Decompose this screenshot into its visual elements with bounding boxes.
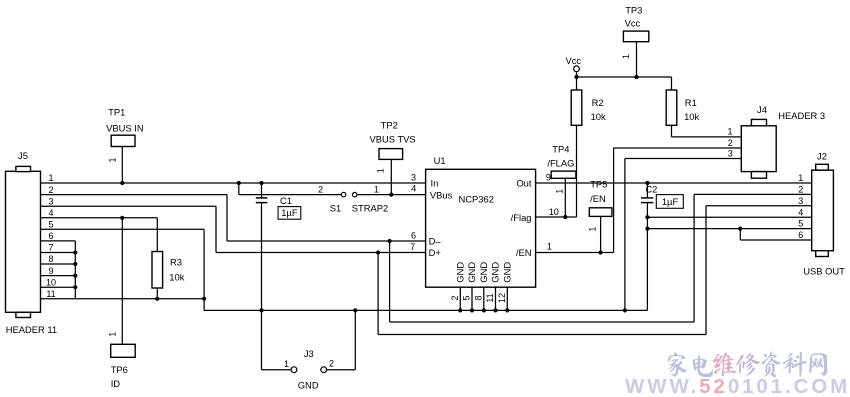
svg-text:VBUS TVS: VBUS TVS bbox=[369, 134, 415, 145]
resistor R2 bbox=[571, 90, 582, 125]
node C1 junction on VBUS bbox=[259, 181, 263, 185]
label GND bbox=[298, 380, 319, 391]
svg-text:GND: GND bbox=[298, 380, 319, 391]
node TP6 junction on ID bbox=[120, 216, 124, 220]
svg-text:3: 3 bbox=[728, 148, 733, 158]
node VBus strap junction bbox=[237, 181, 241, 185]
svg-text:3: 3 bbox=[411, 172, 416, 182]
label TP3 Vcc bbox=[625, 18, 641, 29]
wire J2 pin6 bbox=[740, 239, 811, 241]
U1 GND pin number 11 bbox=[485, 293, 495, 302]
U1 GND stub pin 5 bbox=[471, 287, 473, 310]
node U1 GND pin 5 junction bbox=[470, 308, 474, 312]
wire J4 pin2 to /EN bbox=[614, 148, 742, 253]
J5 pin 4 number bbox=[48, 208, 53, 218]
label VBUS TVS bbox=[369, 134, 415, 145]
svg-text:12: 12 bbox=[497, 293, 507, 303]
svg-text:USB OUT: USB OUT bbox=[803, 266, 845, 277]
jumper J3 pin2 circle bbox=[321, 367, 327, 373]
wire J5 pin 10 bbox=[41, 286, 76, 288]
svg-text:5: 5 bbox=[462, 295, 472, 300]
label VBUS IN bbox=[106, 123, 144, 134]
J2 pin 4 number bbox=[798, 207, 803, 217]
svg-text:/EN: /EN bbox=[590, 193, 606, 204]
label R2 10k bbox=[591, 111, 606, 122]
svg-text:VBus: VBus bbox=[430, 189, 453, 200]
U1 GND pin number 12 bbox=[497, 293, 507, 303]
svg-text:/Flag: /Flag bbox=[511, 212, 532, 223]
connector J2 USB OUT body bbox=[812, 164, 834, 256]
U1 pin 10 number bbox=[549, 207, 559, 217]
C1 value box 1uF bbox=[278, 207, 301, 220]
node U1 GND pin 11 junction bbox=[493, 308, 497, 312]
label /EN bbox=[590, 193, 606, 204]
node U1 GND pin 8 junction bbox=[482, 308, 486, 312]
svg-text:1: 1 bbox=[621, 54, 631, 59]
svg-text:HEADER 11: HEADER 11 bbox=[6, 324, 57, 335]
svg-text:ID: ID bbox=[111, 378, 121, 389]
node C2 J2pin5 junction bbox=[645, 227, 649, 231]
node C1 GND junction bbox=[259, 308, 263, 312]
label R1 10k bbox=[684, 111, 699, 122]
U1 GND label 3 bbox=[478, 262, 489, 283]
svg-text:J4: J4 bbox=[757, 104, 767, 115]
node TP3 junction bbox=[634, 75, 638, 79]
node pin 9 junction bbox=[73, 274, 77, 278]
svg-text:/EN: /EN bbox=[516, 247, 532, 258]
svg-text:5: 5 bbox=[48, 220, 53, 230]
svg-text:R3: R3 bbox=[170, 256, 182, 267]
wire J5 pin 8 bbox=[41, 263, 76, 265]
wire J5 pin4 ID bbox=[41, 217, 158, 219]
label HEADER 3 bbox=[778, 110, 825, 121]
J2 pin 1 number bbox=[798, 173, 803, 183]
svg-text:1: 1 bbox=[547, 241, 552, 251]
svg-text:1µF: 1µF bbox=[281, 207, 298, 218]
U1 pin Out label bbox=[516, 178, 532, 189]
J5 pin 9 number bbox=[48, 266, 53, 276]
svg-text:1: 1 bbox=[374, 184, 379, 194]
svg-text:D–: D– bbox=[429, 236, 442, 247]
label ID bbox=[111, 378, 121, 389]
svg-text:2: 2 bbox=[728, 138, 733, 148]
node J3 GND junction bbox=[353, 308, 357, 312]
J5 pin 7 number bbox=[48, 243, 53, 253]
svg-text:Vcc: Vcc bbox=[565, 55, 581, 66]
svg-text:TP3: TP3 bbox=[625, 4, 642, 15]
svg-text:J3: J3 bbox=[304, 348, 314, 359]
U1 pin In label bbox=[431, 178, 439, 189]
node Vcc junction bbox=[574, 75, 578, 79]
U1 GND stub pin 8 bbox=[483, 287, 485, 310]
svg-text:1: 1 bbox=[48, 173, 53, 183]
svg-text:R2: R2 bbox=[592, 97, 604, 108]
connector J5 HEADER 11 body bbox=[6, 166, 41, 317]
label C2 bbox=[645, 184, 657, 195]
label TP2 bbox=[381, 119, 398, 130]
wire J5 pin5 to GND bbox=[41, 228, 205, 230]
node TP2 junction on strap bbox=[389, 193, 393, 197]
U1 GND stub pin 2 bbox=[459, 287, 461, 310]
U1 GND pin number 2 bbox=[450, 295, 460, 300]
svg-text:2: 2 bbox=[318, 184, 323, 194]
wire pin5 vertical bbox=[203, 229, 205, 298]
wire GND to J2 pin5 bbox=[647, 228, 811, 230]
U1 pin D+ label bbox=[429, 247, 442, 258]
J2 pin 2 number bbox=[798, 185, 803, 195]
svg-text:GND: GND bbox=[455, 262, 466, 283]
node C2 junction on Out bbox=[645, 181, 649, 185]
U1 GND label 1 bbox=[455, 262, 466, 283]
S1 pin 1 label bbox=[374, 184, 379, 194]
label TP6 bbox=[111, 364, 128, 375]
J5 pin 5 number bbox=[48, 220, 53, 230]
J4 pin 2 number bbox=[728, 138, 733, 148]
TP6 pin 1 label bbox=[108, 332, 118, 337]
label TP5 bbox=[590, 179, 607, 190]
node U1 GND pin 12 junction bbox=[505, 308, 509, 312]
node J2 pin5 junction bbox=[738, 227, 742, 231]
svg-text:TP4: TP4 bbox=[552, 143, 569, 154]
svg-text:1µF: 1µF bbox=[662, 196, 679, 207]
connector J4 HEADER 3 body bbox=[741, 119, 776, 178]
wire D+ vertical bbox=[215, 206, 217, 252]
wire J5 pin1 VBUS to U1 In bbox=[41, 182, 426, 184]
svg-text:Vcc: Vcc bbox=[625, 18, 641, 29]
svg-text:1: 1 bbox=[108, 157, 118, 162]
J5 pin 3 number bbox=[48, 196, 53, 206]
node TP4 junction bbox=[563, 215, 567, 219]
svg-text:1: 1 bbox=[376, 168, 386, 173]
label TP3 bbox=[625, 4, 642, 15]
J2 pin 3 number bbox=[798, 196, 803, 206]
svg-text:In: In bbox=[431, 178, 439, 189]
svg-text:2: 2 bbox=[798, 185, 803, 195]
power Vcc circle bbox=[574, 66, 580, 72]
wire pins 6-10 bus vertical bbox=[74, 241, 76, 299]
wire J5 pin2 D- horizontal bbox=[41, 194, 228, 196]
wire U1 /Flag to R2 bbox=[536, 216, 577, 218]
svg-text:6: 6 bbox=[48, 231, 53, 241]
J5 pin 10 number bbox=[46, 277, 56, 287]
svg-text:Out: Out bbox=[516, 178, 532, 189]
J2 pin 5 number bbox=[798, 219, 803, 229]
wire U1 Out to J2 pin1 bbox=[536, 182, 812, 184]
label NCP362 bbox=[459, 194, 494, 205]
label HEADER 11 bbox=[6, 324, 57, 335]
wire J5 pin3 D+ horizontal bbox=[41, 205, 217, 207]
U1 GND pin number 5 bbox=[462, 295, 472, 300]
svg-text:9: 9 bbox=[546, 172, 551, 182]
S1 pin 2 label bbox=[318, 184, 323, 194]
capacitor C2 bbox=[641, 183, 653, 310]
wire J5 pin6 bbox=[41, 240, 76, 242]
jumper J3 pin1 lead bbox=[262, 310, 291, 369]
svg-text:D+: D+ bbox=[429, 247, 442, 258]
test point TP1 bbox=[111, 135, 135, 183]
label TP4 bbox=[552, 143, 569, 154]
svg-text:2: 2 bbox=[450, 295, 460, 300]
node GND jog junction bbox=[202, 297, 206, 301]
svg-text:VBUS IN: VBUS IN bbox=[106, 123, 144, 134]
C2 value box 1uF bbox=[656, 195, 683, 209]
U1 GND stub pin 11 bbox=[495, 287, 497, 310]
svg-text:1: 1 bbox=[284, 359, 289, 369]
label STRAP2 bbox=[352, 203, 388, 214]
svg-text:7: 7 bbox=[410, 242, 415, 252]
label R1 bbox=[685, 97, 697, 108]
wire D- to U1 bbox=[227, 240, 426, 242]
label R3 10k bbox=[169, 272, 184, 283]
wire D+ to U1 bbox=[216, 252, 426, 254]
node TP5 junction bbox=[599, 250, 603, 254]
U1 GND label 5 bbox=[502, 262, 513, 283]
svg-text:J2: J2 bbox=[817, 151, 827, 162]
svg-text:10k: 10k bbox=[684, 111, 699, 122]
J3 pin 1 label bbox=[284, 359, 289, 369]
node TP1 junction on VBUS bbox=[120, 181, 124, 185]
jumper J3 pin1 circle bbox=[291, 367, 297, 373]
test point TP6 bbox=[111, 344, 136, 357]
svg-text:TP6: TP6 bbox=[111, 364, 128, 375]
node pin 8 junction bbox=[73, 262, 77, 266]
node C2 J2pin4 junction bbox=[645, 215, 649, 219]
U1 pin D- label bbox=[429, 236, 442, 247]
svg-text:5: 5 bbox=[798, 219, 803, 229]
svg-text:S1: S1 bbox=[330, 203, 341, 214]
svg-text:GND: GND bbox=[478, 262, 489, 283]
J5 pin 6 number bbox=[48, 231, 53, 241]
wire VBus strap stub bbox=[238, 183, 240, 195]
U1 pin 7 number bbox=[410, 242, 415, 252]
U1 pin 1 number bbox=[547, 241, 552, 251]
J5 pin 11 number bbox=[46, 289, 55, 299]
svg-text:R1: R1 bbox=[685, 97, 697, 108]
label R2 bbox=[592, 97, 604, 108]
wire GND bus lower bbox=[204, 309, 647, 311]
label /FLAG bbox=[547, 158, 574, 169]
svg-text:9: 9 bbox=[48, 266, 53, 276]
svg-text:4: 4 bbox=[48, 208, 53, 218]
svg-text:11: 11 bbox=[485, 293, 495, 302]
label J4 bbox=[757, 104, 767, 115]
wire strap to S1 bbox=[239, 194, 341, 196]
node D- branch junction bbox=[388, 239, 392, 243]
jumper J3 pin2 lead bbox=[327, 310, 355, 369]
TP1 pin 1 label bbox=[108, 157, 118, 162]
J5 pin 2 number bbox=[48, 185, 53, 195]
test point TP5 bbox=[589, 208, 612, 253]
J4 pin 1 number bbox=[727, 127, 732, 137]
U1 pin 6 number bbox=[411, 231, 416, 241]
wire GND jog down bbox=[203, 299, 205, 311]
label S1 bbox=[330, 203, 341, 214]
svg-text:10: 10 bbox=[46, 277, 56, 287]
U1 pin /EN label bbox=[516, 247, 532, 258]
svg-text:WWW.520101.COM: WWW.520101.COM bbox=[625, 375, 850, 397]
switch S1 circle a bbox=[341, 192, 345, 196]
label USB OUT bbox=[803, 266, 845, 277]
U1 pin /Flag label bbox=[511, 212, 532, 223]
wire D+ bottom route bbox=[378, 206, 812, 335]
J2 pin 6 number bbox=[798, 230, 803, 240]
svg-text:1: 1 bbox=[588, 227, 598, 232]
test point TP4 bbox=[551, 171, 576, 217]
svg-text:7: 7 bbox=[48, 243, 53, 253]
J4 pin 3 number bbox=[728, 148, 733, 158]
switch S1 circle b bbox=[353, 192, 357, 196]
wire J4 pin3 to GND bbox=[625, 159, 741, 311]
wire TP6 drop bbox=[121, 218, 123, 344]
wire U1 /EN bbox=[536, 252, 614, 254]
U1 pin 9 number bbox=[546, 172, 551, 182]
TP3 pin 1 label bbox=[621, 54, 631, 59]
svg-text:8: 8 bbox=[48, 254, 53, 264]
label J5 bbox=[18, 150, 28, 161]
label U1 bbox=[434, 155, 446, 166]
wire J5 pin 9 bbox=[41, 275, 76, 277]
test point TP3 bbox=[623, 31, 648, 77]
svg-text:J5: J5 bbox=[18, 150, 28, 161]
svg-text:6: 6 bbox=[798, 230, 803, 240]
resistor R3 bbox=[152, 218, 163, 299]
svg-text:1: 1 bbox=[555, 189, 565, 194]
label C1 bbox=[280, 195, 292, 206]
J3 pin 2 label bbox=[329, 359, 334, 369]
svg-text:GND: GND bbox=[466, 262, 477, 283]
svg-text:10k: 10k bbox=[591, 111, 606, 122]
svg-text:1: 1 bbox=[108, 332, 118, 337]
TP5 pin 1 label bbox=[588, 227, 598, 232]
node R3 GND junction bbox=[155, 297, 159, 301]
svg-text:HEADER 3: HEADER 3 bbox=[778, 110, 825, 121]
U1 pin 3 number bbox=[411, 172, 416, 182]
capacitor C1 bbox=[256, 183, 267, 310]
label J2 bbox=[817, 151, 827, 162]
TP2 pin 1 label bbox=[376, 168, 386, 173]
wire J2 pin5-pin6 tie bbox=[739, 229, 741, 240]
wire J5 pin 7 bbox=[41, 252, 76, 254]
svg-text:1: 1 bbox=[798, 173, 803, 183]
svg-text:11: 11 bbox=[46, 289, 55, 299]
wire GND to J2 pin4 bbox=[647, 216, 811, 218]
svg-text:3: 3 bbox=[48, 196, 53, 206]
U1 GND pin number 8 bbox=[473, 295, 483, 300]
power Vcc label bbox=[565, 55, 581, 66]
wire R2 bottom lead bbox=[576, 125, 578, 217]
J5 pin 8 number bbox=[48, 254, 53, 264]
svg-text:3: 3 bbox=[798, 196, 803, 206]
svg-text:U1: U1 bbox=[434, 155, 446, 166]
U1 GND label 2 bbox=[466, 262, 477, 283]
node J4 pin3 GND junction bbox=[623, 308, 627, 312]
node D+ branch junction bbox=[376, 250, 380, 254]
svg-text:2: 2 bbox=[329, 359, 334, 369]
svg-text:STRAP2: STRAP2 bbox=[352, 203, 388, 214]
watermark url text bbox=[625, 375, 850, 397]
U1 pin VBus label bbox=[430, 189, 453, 200]
U1 GND label 4 bbox=[490, 262, 501, 283]
wire Vcc rail bbox=[577, 72, 672, 90]
label J3 bbox=[304, 348, 314, 359]
resistor R1 bbox=[666, 77, 677, 137]
watermark chinese text bbox=[668, 352, 828, 378]
svg-text:6: 6 bbox=[411, 231, 416, 241]
svg-text:8: 8 bbox=[473, 295, 483, 300]
TP4 pin 1 label bbox=[555, 189, 565, 194]
svg-text:C1: C1 bbox=[280, 195, 292, 206]
svg-text:C2: C2 bbox=[645, 184, 657, 195]
svg-text:/FLAG: /FLAG bbox=[547, 158, 574, 169]
op-amp U1 NCP362 box bbox=[426, 169, 536, 287]
U1 pin 4 number bbox=[411, 184, 416, 194]
node pin 10 junction bbox=[73, 285, 77, 289]
U1 GND stub pin 12 bbox=[506, 287, 508, 310]
wire R1 to J4 pin1 bbox=[672, 136, 742, 138]
svg-text:10: 10 bbox=[549, 207, 559, 217]
label R3 bbox=[170, 256, 182, 267]
wire S1 to U1 VBus bbox=[357, 194, 426, 196]
svg-text:TP5: TP5 bbox=[590, 179, 607, 190]
svg-text:GND: GND bbox=[502, 262, 513, 283]
svg-text:2: 2 bbox=[48, 185, 53, 195]
node U1 GND pin 2 junction bbox=[458, 308, 462, 312]
test point TP2 bbox=[379, 149, 403, 195]
svg-text:1: 1 bbox=[727, 127, 732, 137]
svg-text:4: 4 bbox=[411, 184, 416, 194]
label TP1 bbox=[108, 106, 125, 117]
svg-text:GND: GND bbox=[490, 262, 501, 283]
node pin 7 junction bbox=[73, 250, 77, 254]
wire D- bottom route bbox=[390, 194, 812, 322]
wire J5 pin11 GND bus bbox=[41, 298, 205, 300]
svg-text:TP1: TP1 bbox=[108, 106, 125, 117]
svg-text:NCP362: NCP362 bbox=[459, 194, 494, 205]
svg-text:4: 4 bbox=[798, 207, 803, 217]
svg-text:10k: 10k bbox=[169, 272, 184, 283]
J5 pin 1 number bbox=[48, 173, 53, 183]
svg-text:TP2: TP2 bbox=[381, 119, 398, 130]
wire D- vertical bbox=[226, 195, 228, 241]
